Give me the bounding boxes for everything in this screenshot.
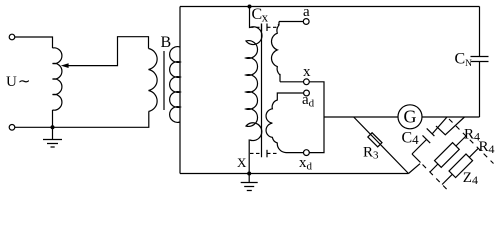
wire variac bottom to ground node [52, 110, 54, 127]
ground symbol left [43, 127, 62, 147]
dashed rail lower [423, 165, 449, 192]
variac winding L1 [53, 48, 62, 110]
svg-text:U∼: U∼ [6, 74, 30, 90]
junction dot ground node [51, 125, 55, 129]
resistor R3 [368, 133, 382, 147]
variac tap arrow [61, 63, 69, 68]
standard capacitor CN [471, 7, 489, 118]
capacitor C4 plates [423, 128, 435, 143]
resistor R4 leads [430, 136, 466, 172]
svg-text:x: x [303, 64, 311, 80]
transformer B primary winding [149, 49, 158, 112]
svg-text:Z4: Z4 [463, 170, 478, 187]
dashed rail upper [449, 119, 494, 164]
ground symbol at X [241, 174, 258, 191]
bridge arm 4 wire upper [436, 117, 465, 135]
HV winding of tested transformer [246, 7, 262, 141]
winding a-x of tested transformer [271, 22, 280, 82]
svg-text:G: G [404, 107, 417, 127]
terminal circle bottom-left [9, 125, 15, 131]
galvanometer wire left [324, 116, 398, 118]
svg-text:B: B [161, 34, 172, 51]
terminal circle ad [304, 90, 310, 96]
galvanometer wire right [422, 116, 480, 118]
bridge arm 4 wire lower [409, 164, 421, 174]
terminal circle x [304, 79, 310, 85]
resistor R4 [435, 143, 460, 168]
wire top-left terminal to variac [15, 37, 53, 48]
terminal circle top-left [9, 34, 15, 40]
transformer B secondary winding [170, 47, 180, 123]
winding ad-xd of tested transformer [266, 93, 303, 153]
bridge arm R3 diagonal [354, 117, 409, 174]
svg-text:C4: C4 [402, 130, 420, 148]
HV winding lower lead to X [248, 140, 251, 174]
impedance Z4 box [449, 154, 473, 178]
tap wire to transformer B primary [68, 37, 149, 66]
svg-text:R4: R4 [479, 139, 495, 156]
svg-text:X: X [237, 155, 247, 170]
terminal circle xd [304, 150, 310, 156]
transformer B core [163, 51, 165, 110]
svg-text:a: a [303, 4, 310, 20]
galvanometer G [398, 105, 422, 129]
impedance Z4 leads [442, 148, 478, 184]
arm 4 rail lower-left [412, 154, 421, 163]
wire to terminal x [280, 81, 304, 83]
junction dot HV lead top [248, 5, 252, 9]
capacitor stray bottom at X [266, 150, 268, 158]
svg-text:Cx: Cx [252, 6, 269, 25]
terminal circle a [303, 19, 309, 25]
arm 4 rail upper-left [412, 117, 447, 154]
shorting link x to xd (measuring tap) [309, 82, 324, 153]
wire to terminal a [279, 21, 303, 23]
test object enclosure box [180, 7, 480, 174]
junction dot X bottom [247, 172, 251, 176]
capacitor CX (stray, dashed) top [261, 24, 263, 32]
bottom wire to transformer B [15, 112, 149, 128]
tested transformer core [261, 24, 263, 158]
